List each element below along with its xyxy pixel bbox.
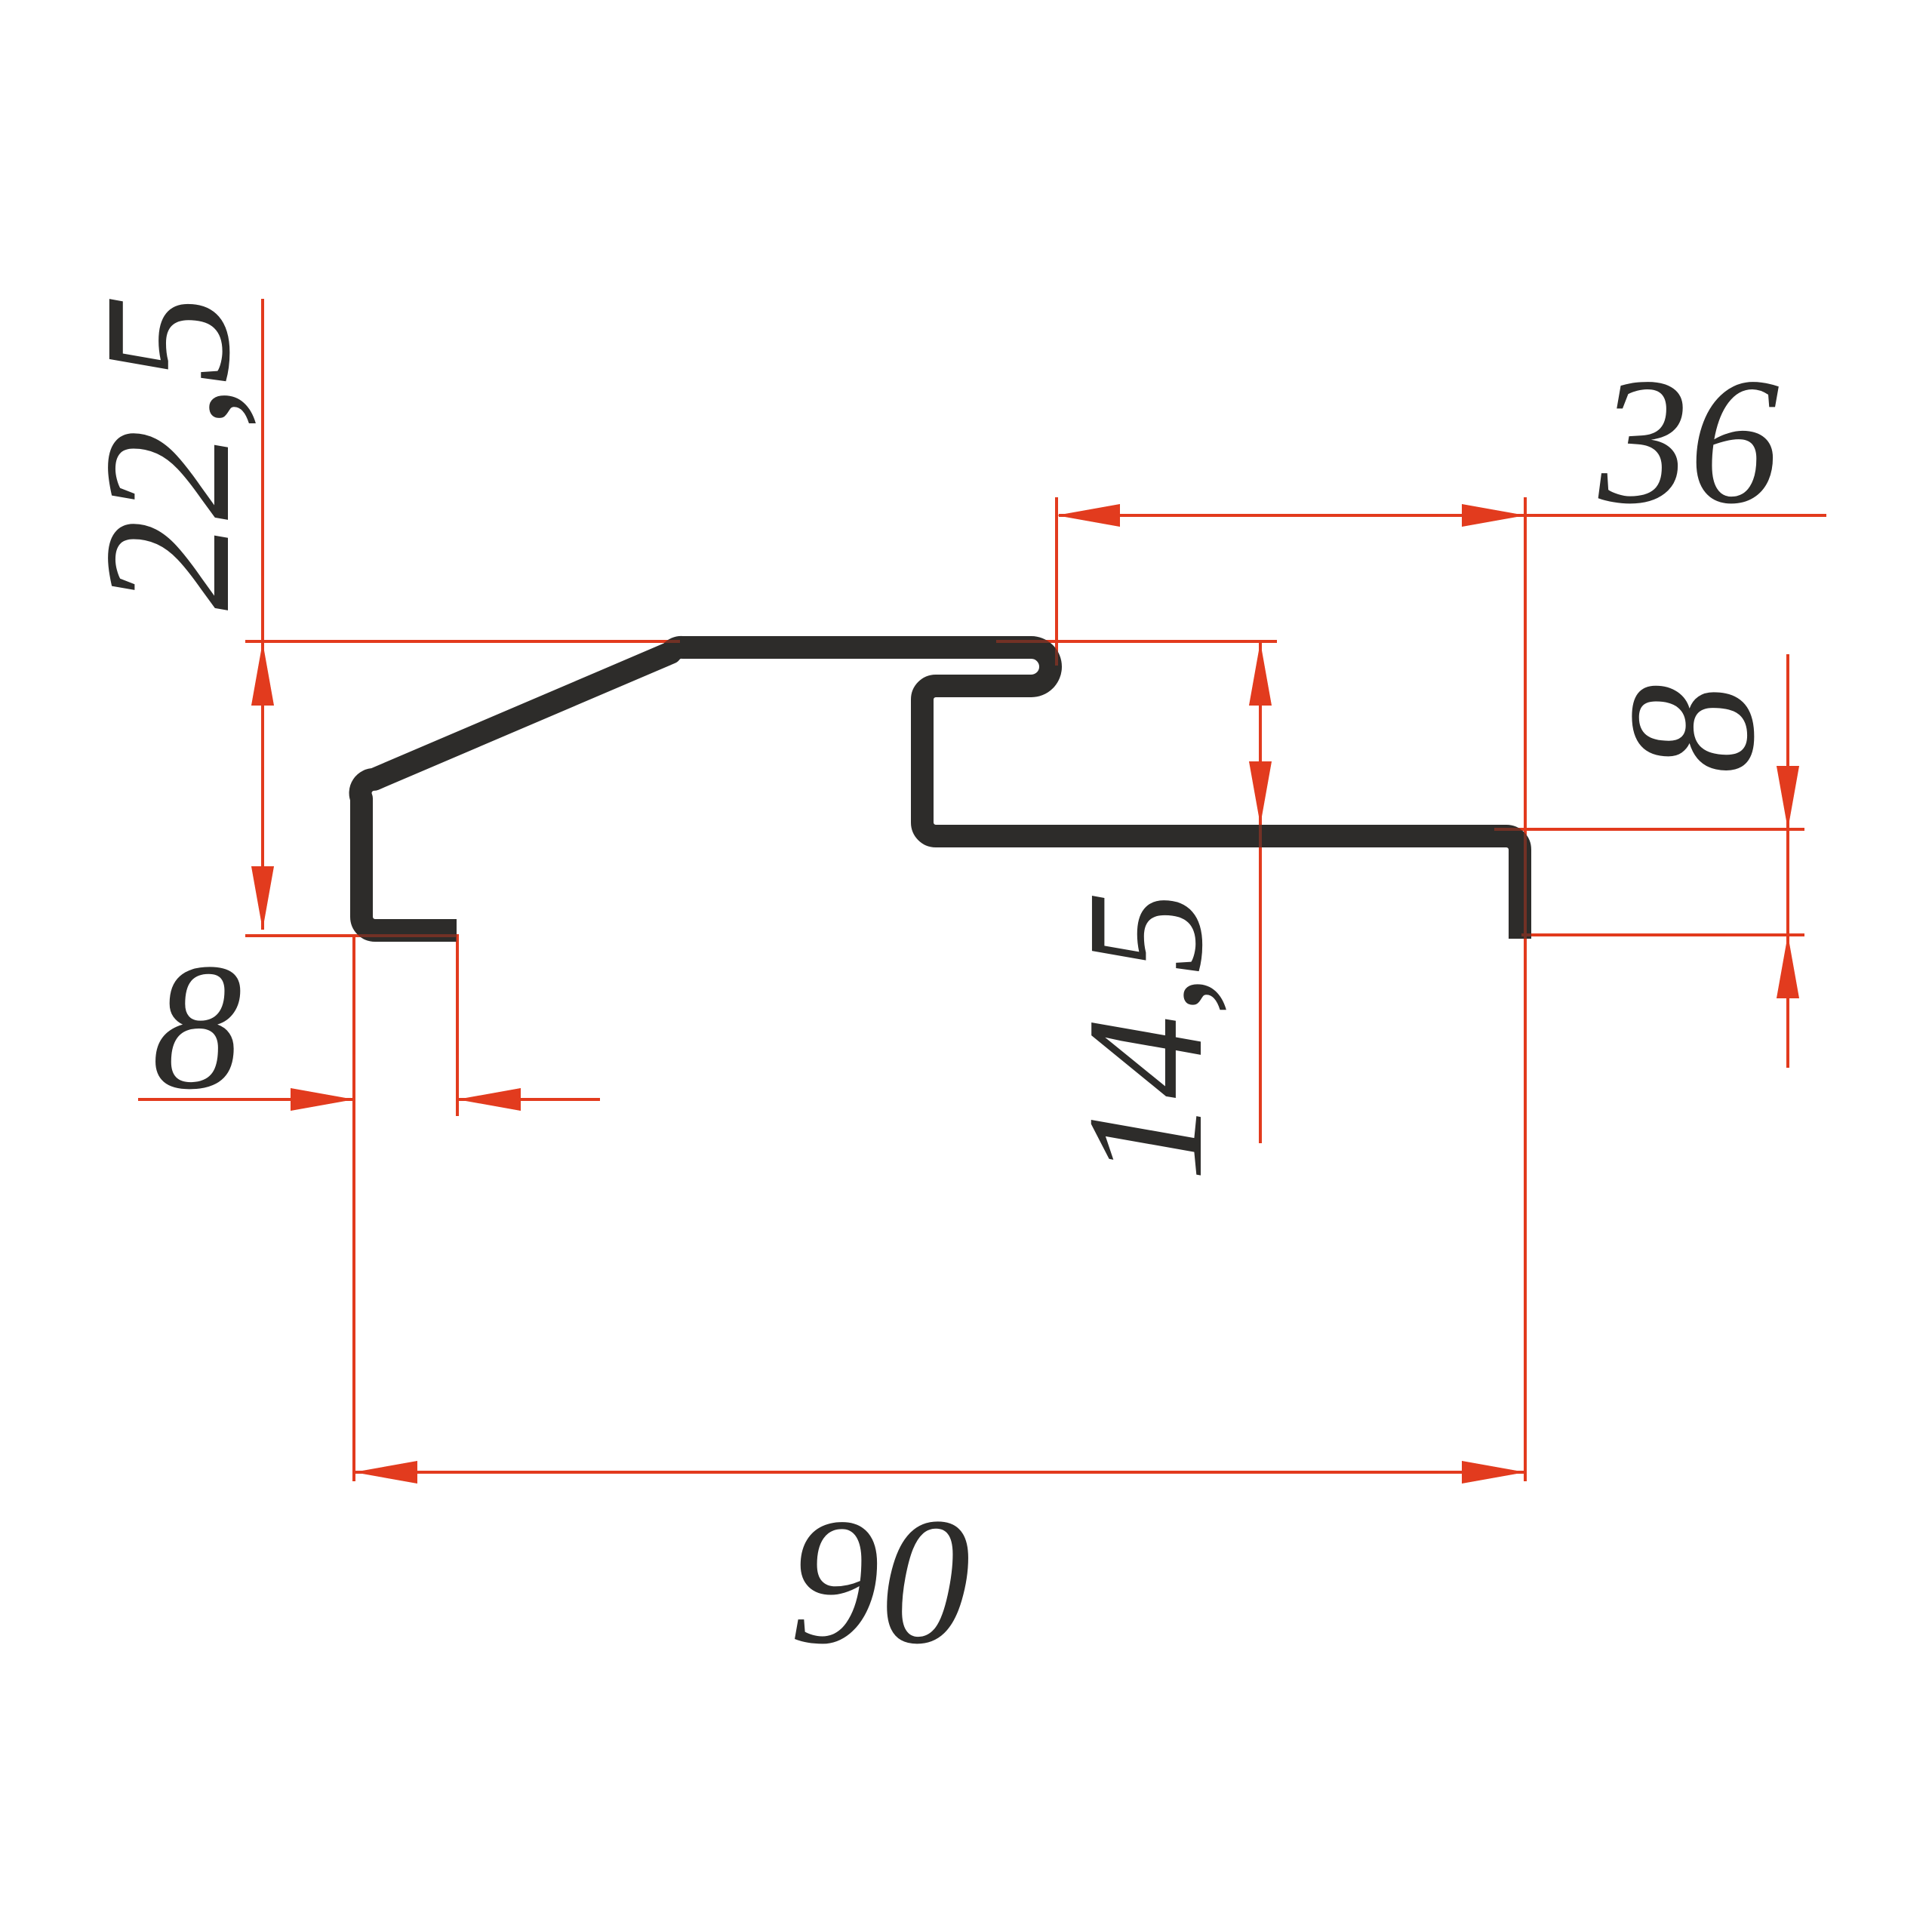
svg-text:14,5: 14,5 (1053, 891, 1237, 1182)
svg-text:36: 36 (1598, 340, 1780, 541)
svg-text:8: 8 (1591, 684, 1792, 774)
svg-text:22,5: 22,5 (66, 294, 267, 610)
svg-text:8: 8 (152, 926, 242, 1127)
svg-text:90: 90 (789, 1481, 971, 1681)
